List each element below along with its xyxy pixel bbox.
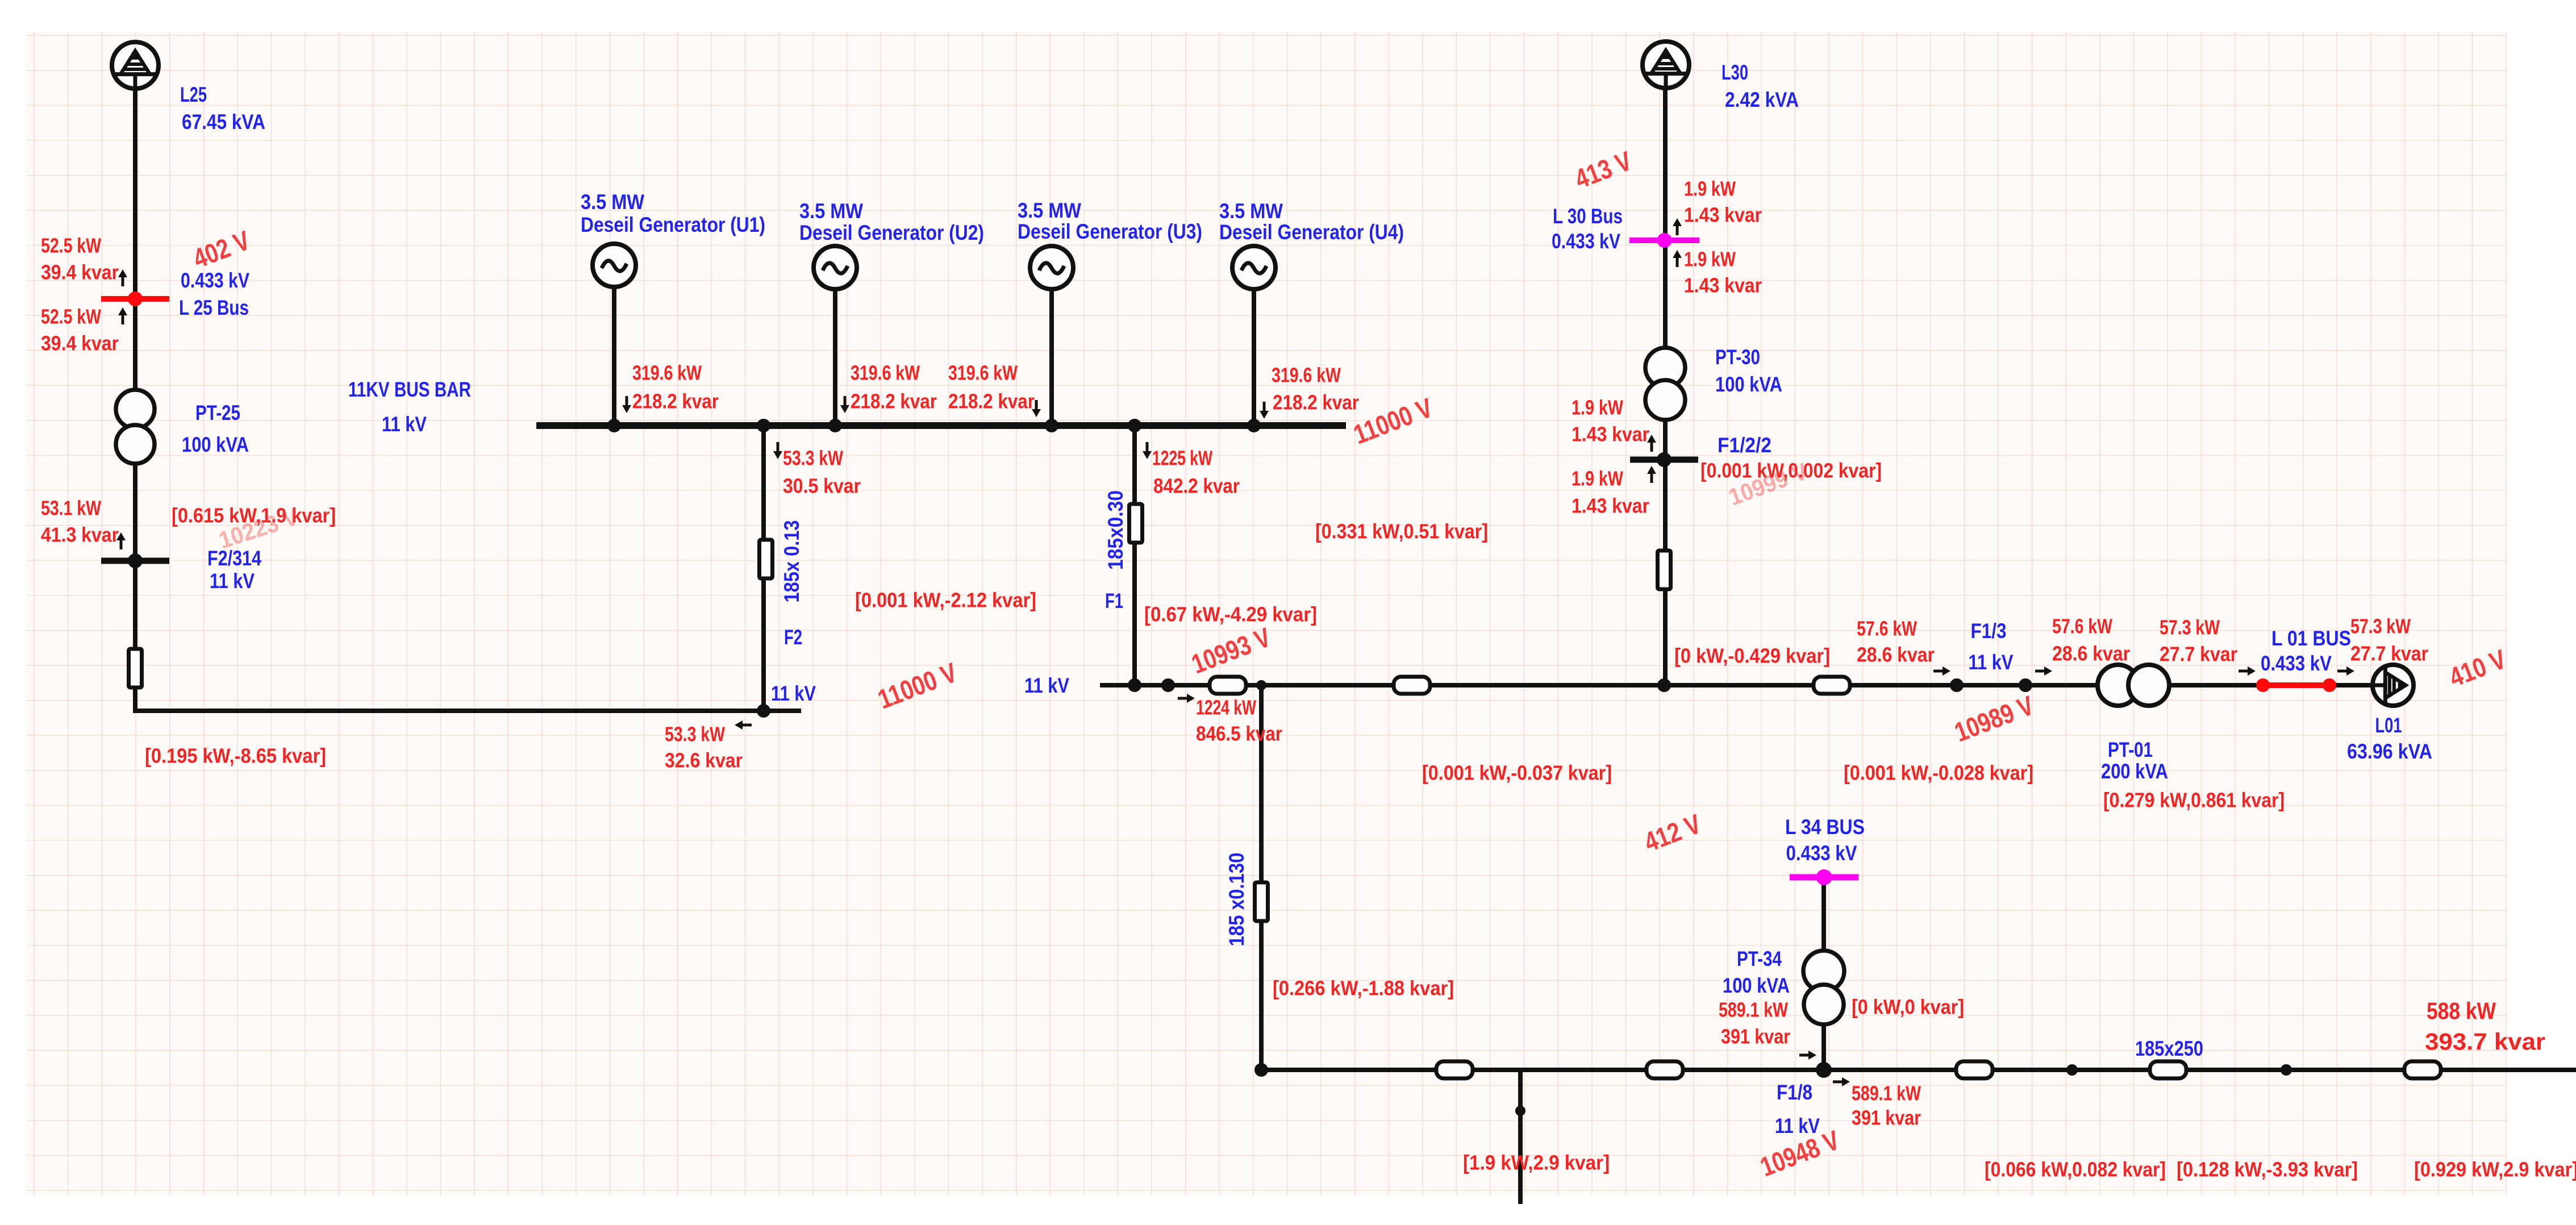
arrow flow after F1/8 <box>1833 1077 1850 1086</box>
svg-text:218.2 kvar: 218.2 kvar <box>632 390 719 413</box>
generator U1 <box>593 244 636 287</box>
svg-text:1224 kW: 1224 kW <box>1196 696 1256 719</box>
arrow flow before F1/3 <box>1933 666 1950 676</box>
transformer PT-34 <box>1803 951 1844 1024</box>
svg-text:L 25 Bus: L 25 Bus <box>179 295 249 319</box>
svg-text:319.6 kW: 319.6 kW <box>632 361 702 385</box>
svg-text:218.2 kvar: 218.2 kvar <box>851 390 937 413</box>
svg-text:F1/8: F1/8 <box>1777 1080 1812 1104</box>
svg-text:100 kVA: 100 kVA <box>182 432 249 456</box>
arrow flow into L30 bus bottom <box>1673 250 1682 267</box>
generator U2 <box>814 246 857 289</box>
wire branch 185x0.130 <box>1259 685 1264 1070</box>
svg-text:[0.266 kW,-1.88 kvar]: [0.266 kW,-1.88 kvar] <box>1273 977 1454 1000</box>
wire upper 11kV feeder <box>1102 683 2375 688</box>
junction F2 / busbar <box>757 419 770 432</box>
node F1/3 left <box>1950 678 1964 692</box>
svg-text:200 kVA: 200 kVA <box>2101 759 2168 783</box>
cable symbol 185x250 <box>2150 1061 2186 1078</box>
svg-text:391 kvar: 391 kvar <box>1852 1106 1921 1130</box>
svg-text:53.3 kW: 53.3 kW <box>783 447 843 470</box>
svg-text:1.9 kW: 1.9 kW <box>1684 248 1736 271</box>
svg-text:32.6 kvar: 32.6 kvar <box>665 749 743 772</box>
arrow flow after F1/3 <box>2035 666 2052 676</box>
svg-text:[0.066 kW,0.082 kvar]: [0.066 kW,0.082 kvar] <box>1985 1158 2166 1181</box>
arrow flow above F2/314 <box>116 532 126 549</box>
svg-text:319.6 kW: 319.6 kW <box>851 361 920 385</box>
wire lower feeder <box>1261 1068 2576 1072</box>
cable symbol on feeder 1 <box>1210 677 1246 694</box>
node lower feeder b <box>2281 1064 2292 1076</box>
svg-text:[0.001 kW,-0.037 kvar]: [0.001 kW,-0.037 kvar] <box>1422 761 1612 785</box>
arrow flow F1 down <box>1143 442 1152 459</box>
arrow flow U1 injection <box>622 396 631 413</box>
svg-text:11 kV: 11 kV <box>1024 673 1069 697</box>
svg-text:41.3 kvar: 41.3 kvar <box>41 523 119 547</box>
svg-text:588 kW: 588 kW <box>2427 998 2496 1024</box>
svg-text:F1: F1 <box>1105 589 1123 612</box>
svg-text:393.7 kvar: 393.7 kvar <box>2425 1028 2545 1055</box>
svg-text:3.5 MW: 3.5 MW <box>799 199 864 223</box>
junction F2 / bottom wire <box>757 704 770 718</box>
transformer PT-30 <box>1645 348 1685 420</box>
svg-text:1225 kW: 1225 kW <box>1152 447 1212 470</box>
svg-text:28.6 kvar: 28.6 kvar <box>2052 642 2130 665</box>
node bottom drop <box>1515 1106 1525 1116</box>
cable impedance on L30 branch <box>1658 551 1671 589</box>
wire L25 bottom horizontal <box>135 709 799 713</box>
svg-text:3.5 MW: 3.5 MW <box>1018 198 1082 222</box>
svg-text:[0.195 kW,-8.65 kvar]: [0.195 kW,-8.65 kvar] <box>145 744 326 768</box>
node feeder a <box>1161 678 1175 692</box>
svg-text:F1/3: F1/3 <box>1971 619 2007 643</box>
svg-text:1.43 kvar: 1.43 kvar <box>1684 203 1762 227</box>
fuse F2/314 <box>101 553 169 568</box>
junction L30 branch / feeder <box>1657 678 1671 692</box>
svg-text:27.7 kvar: 27.7 kvar <box>2160 643 2237 666</box>
bus L 01 BUS (red) <box>2256 678 2336 692</box>
cable symbol lower feeder 1 <box>1436 1061 1473 1078</box>
svg-text:589.1 kW: 589.1 kW <box>1852 1082 1921 1105</box>
node lower feeder a <box>2066 1064 2078 1076</box>
arrow flow U2 injection <box>840 396 849 413</box>
svg-text:100 kVA: 100 kVA <box>1715 372 1782 396</box>
svg-text:[0.001 kW,-0.028 kvar]: [0.001 kW,-0.028 kvar] <box>1844 761 2033 785</box>
svg-text:39.4 kvar: 39.4 kvar <box>41 332 119 355</box>
generator U3 <box>1030 246 1073 289</box>
svg-text:11 kV: 11 kV <box>771 681 816 705</box>
cable impedance on 185x0.130 branch <box>1255 882 1268 921</box>
generator U4 <box>1232 246 1276 289</box>
svg-text:[0.67 kW,-4.29 kvar]: [0.67 kW,-4.29 kvar] <box>1144 603 1317 626</box>
svg-text:63.96 kVA: 63.96 kVA <box>2347 739 2432 763</box>
svg-text:11 kV: 11 kV <box>382 412 427 436</box>
svg-text:0.433 kV: 0.433 kV <box>181 268 249 292</box>
arrow flow before L01 bus <box>2239 666 2256 676</box>
wire F2 vertical <box>761 426 766 711</box>
svg-text:[0.001 kW,-2.12 kvar]: [0.001 kW,-2.12 kvar] <box>855 589 1036 612</box>
svg-text:F1/2/2: F1/2/2 <box>1718 433 1771 457</box>
svg-text:57.3 kW: 57.3 kW <box>2160 616 2220 639</box>
svg-text:[0.331 kW,0.51 kvar]: [0.331 kW,0.51 kvar] <box>1315 520 1488 543</box>
junction F1 / busbar <box>1128 419 1141 432</box>
svg-text:39.4 kvar: 39.4 kvar <box>41 261 119 284</box>
cable impedance on L25 branch <box>129 649 142 688</box>
svg-text:391 kvar: 391 kvar <box>1721 1025 1790 1048</box>
load L25 <box>112 42 159 89</box>
svg-text:3.5 MW: 3.5 MW <box>1219 199 1283 223</box>
svg-text:Deseil Generator (U2): Deseil Generator (U2) <box>799 220 984 244</box>
svg-text:0.433 kV: 0.433 kV <box>1552 229 1620 253</box>
svg-text:[1.9 kW,2.9 kvar]: [1.9 kW,2.9 kvar] <box>1463 1151 1610 1174</box>
arrow flow U3 injection <box>1032 400 1041 417</box>
svg-text:0.433 kV: 0.433 kV <box>1786 841 1857 865</box>
wire U4 drop <box>1252 288 1256 426</box>
arrow flow feeder right <box>1178 694 1195 703</box>
junction F1 / feeder <box>1128 678 1141 692</box>
wire U1 drop <box>612 286 616 426</box>
arrow flow at L25 bottom wire <box>735 720 752 730</box>
svg-text:Deseil Generator (U1): Deseil Generator (U1) <box>581 213 765 236</box>
svg-text:846.5 kvar: 846.5 kvar <box>1196 722 1282 745</box>
node F1/3 right <box>2019 678 2032 692</box>
arrow flow PT-30 up a <box>1647 435 1656 452</box>
svg-text:842.2 kvar: 842.2 kvar <box>1153 474 1240 498</box>
junction U2 / busbar <box>828 419 842 432</box>
junction 185x0.130 / feeder <box>1256 680 1266 690</box>
svg-text:1.43 kvar: 1.43 kvar <box>1572 494 1649 518</box>
arrow flow U4 injection <box>1260 402 1269 419</box>
svg-text:1.9 kW: 1.9 kW <box>1572 396 1623 419</box>
svg-text:185 x0.130: 185 x0.130 <box>1224 853 1248 947</box>
svg-text:2.42 kVA: 2.42 kVA <box>1725 88 1799 111</box>
svg-text:0.433 kV: 0.433 kV <box>2261 651 2332 675</box>
svg-text:185x250: 185x250 <box>2135 1036 2203 1060</box>
wire U2 drop <box>833 288 837 426</box>
bus L 25 Bus (red) <box>101 291 169 306</box>
svg-text:589.1 kW: 589.1 kW <box>1719 998 1788 1022</box>
svg-text:319.6 kW: 319.6 kW <box>948 361 1018 385</box>
svg-text:L25: L25 <box>180 82 207 106</box>
svg-text:[0.279 kW,0.861 kvar]: [0.279 kW,0.861 kvar] <box>2103 789 2285 812</box>
svg-text:185x0.30: 185x0.30 <box>1103 490 1127 570</box>
arrow flow into L25 bus bottom <box>118 307 127 324</box>
svg-text:L 34 BUS: L 34 BUS <box>1785 815 1865 839</box>
svg-text:PT-01: PT-01 <box>2108 738 2153 761</box>
transformer PT-25 <box>116 390 155 464</box>
svg-text:[0.929 kW,2.9 kvar]: [0.929 kW,2.9 kvar] <box>2414 1158 2576 1181</box>
svg-text:PT-25: PT-25 <box>195 401 240 424</box>
svg-text:1.9 kW: 1.9 kW <box>1684 177 1736 201</box>
arrow flow into L25 bus top <box>118 269 127 286</box>
svg-text:1.9 kW: 1.9 kW <box>1572 467 1623 490</box>
svg-text:3.5 MW: 3.5 MW <box>581 190 645 214</box>
svg-text:53.3 kW: 53.3 kW <box>665 723 725 746</box>
svg-text:52.5 kW: 52.5 kW <box>41 234 101 257</box>
svg-text:53.1 kW: 53.1 kW <box>41 497 101 520</box>
svg-text:PT-34: PT-34 <box>1737 947 1782 970</box>
svg-text:57.6 kW: 57.6 kW <box>1857 617 1917 640</box>
load L01 <box>2373 665 2414 706</box>
svg-text:218.2 kvar: 218.2 kvar <box>1273 391 1359 414</box>
svg-text:[0 kW,0 kvar]: [0 kW,0 kvar] <box>1852 995 1964 1019</box>
svg-text:[0 kW,-0.429 kvar]: [0 kW,-0.429 kvar] <box>1674 644 1830 668</box>
svg-text:100 kVA: 100 kVA <box>1723 973 1790 997</box>
wire L30 drop <box>1663 85 1668 685</box>
junction U3 / busbar <box>1045 419 1058 432</box>
junction 185x0.130 / lower feeder <box>1254 1063 1268 1077</box>
cable impedance F2 <box>760 540 773 578</box>
svg-text:Deseil Generator (U4): Deseil Generator (U4) <box>1219 220 1404 244</box>
svg-text:1.43 kvar: 1.43 kvar <box>1684 274 1762 297</box>
svg-text:30.5 kvar: 30.5 kvar <box>783 474 861 498</box>
junction F1/8 / lower feeder <box>1816 1062 1832 1078</box>
cable symbol lower feeder 5 <box>2404 1061 2441 1078</box>
svg-text:11KV BUS BAR: 11KV BUS BAR <box>348 377 471 401</box>
arrow flow F2 down <box>773 442 782 459</box>
junction U4 / busbar <box>1247 419 1261 432</box>
cable symbol on feeder 3 <box>1814 677 1850 694</box>
arrow flow before F1/8 <box>1799 1051 1816 1060</box>
svg-text:PT-30: PT-30 <box>1715 345 1760 369</box>
wire F1 vertical <box>1132 426 1137 685</box>
svg-text:319.6 kW: 319.6 kW <box>1272 364 1341 387</box>
svg-text:L01: L01 <box>2375 713 2402 737</box>
svg-text:52.5 kW: 52.5 kW <box>41 305 101 328</box>
svg-text:218.2 kvar: 218.2 kvar <box>948 390 1035 413</box>
wire bottom drop <box>1518 1070 1523 1202</box>
transformer PT-01 <box>2098 665 2169 706</box>
svg-text:F2: F2 <box>784 625 802 649</box>
svg-text:Deseil Generator (U3): Deseil Generator (U3) <box>1018 219 1202 243</box>
svg-text:11 kV: 11 kV <box>210 569 255 593</box>
arrow flow after L01 bus <box>2337 666 2354 676</box>
svg-text:28.6 kvar: 28.6 kvar <box>1857 643 1935 666</box>
arrow flow into L30 bus top <box>1673 218 1682 235</box>
wire L25 drop <box>133 85 137 711</box>
svg-text:11 kV: 11 kV <box>1969 650 2014 674</box>
svg-text:1.43 kvar: 1.43 kvar <box>1572 423 1649 446</box>
bus L 34 BUS (magenta) <box>1790 869 1858 885</box>
junction U1 / busbar <box>607 419 621 432</box>
cable symbol on feeder 2 <box>1394 677 1430 694</box>
svg-text:27.7 kvar: 27.7 kvar <box>2350 642 2428 665</box>
arrow flow PT-30 up b <box>1647 466 1656 483</box>
svg-text:[0.128 kW,-3.93 kvar]: [0.128 kW,-3.93 kvar] <box>2177 1158 2358 1181</box>
wire PT-34 drop <box>1821 877 1826 1070</box>
svg-text:L 30 Bus: L 30 Bus <box>1553 204 1623 228</box>
wire U3 drop <box>1049 288 1054 426</box>
cable symbol lower feeder 3 <box>1956 1061 1993 1078</box>
fuse F1/2/2 <box>1630 452 1698 467</box>
cable impedance F1 <box>1129 504 1143 543</box>
bus L 30 Bus (magenta) <box>1629 233 1699 248</box>
cable symbol lower feeder 2 <box>1647 1061 1683 1078</box>
svg-text:67.45 kVA: 67.45 kVA <box>182 110 265 134</box>
svg-text:L 01 BUS: L 01 BUS <box>2271 626 2351 650</box>
svg-text:57.3 kW: 57.3 kW <box>2350 615 2411 638</box>
svg-text:57.6 kW: 57.6 kW <box>2052 615 2112 638</box>
svg-text:185x 0.13: 185x 0.13 <box>780 520 803 603</box>
load L30 <box>1643 41 1689 88</box>
wire 11kV bus bar <box>540 422 1343 429</box>
svg-text:L30: L30 <box>1721 60 1748 84</box>
